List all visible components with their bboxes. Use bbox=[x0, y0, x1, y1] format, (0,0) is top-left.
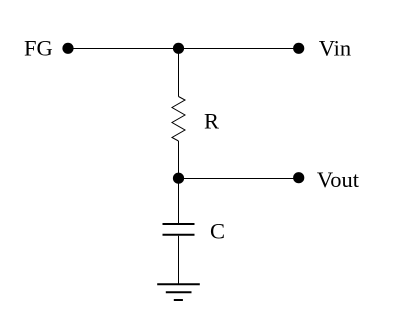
svg-text:R: R bbox=[204, 109, 219, 134]
svg-text:Vout: Vout bbox=[317, 167, 360, 192]
svg-text:Vin: Vin bbox=[319, 36, 351, 61]
svg-text:FG: FG bbox=[24, 36, 53, 61]
svg-text:C: C bbox=[210, 218, 225, 243]
